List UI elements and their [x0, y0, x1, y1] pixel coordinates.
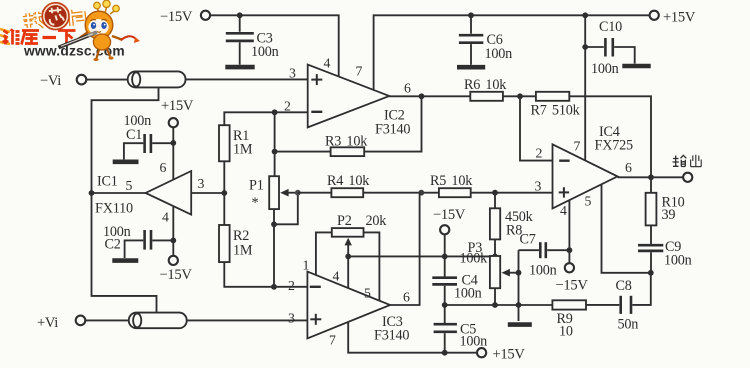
wire ground rail: [445, 304, 553, 306]
svg-text:3: 3: [535, 179, 542, 194]
svg-text:20k: 20k: [366, 213, 388, 229]
resistor R6 10k: [464, 77, 507, 101]
wire R7 to output node: [569, 96, 651, 177]
svg-text:−15V: −15V: [160, 267, 193, 283]
resistor R10 39: [646, 177, 685, 225]
svg-text:3: 3: [288, 311, 295, 326]
svg-text:100n: 100n: [529, 263, 557, 279]
wire +Vi to coax: [85, 319, 133, 321]
junction R6 R7 IC4pin2: [517, 93, 523, 99]
svg-text:R7 510k: R7 510k: [531, 103, 581, 119]
ground C10: [622, 64, 650, 69]
node output terminal: [683, 173, 692, 182]
capacitor C8 50n: [586, 278, 638, 333]
resistor R9 10: [552, 300, 586, 339]
svg-text:100n: 100n: [591, 61, 619, 77]
svg-text:50n: 50n: [618, 317, 639, 333]
junction IC3 output tap: [418, 190, 424, 196]
junction C5 bottom: [442, 350, 448, 356]
potentiometer P2 20k: [332, 213, 387, 288]
wire P1 bottom: [273, 209, 275, 287]
svg-text:R6 10k: R6 10k: [464, 77, 507, 93]
svg-text:6: 6: [160, 160, 167, 175]
junction C1 tap: [170, 140, 176, 146]
wire coax to IC2 pin3: [186, 78, 308, 80]
svg-text:FX725: FX725: [595, 138, 634, 154]
junction R3 feedback tap: [419, 93, 425, 99]
wire IC2 pin2 line: [224, 112, 307, 125]
logo text 找芯片 with magnifier: [22, 0, 85, 33]
junction C2 tap: [170, 238, 176, 244]
svg-text:100n: 100n: [485, 46, 513, 62]
op-amp U IC1 FX110: [95, 171, 191, 217]
node +15V top-right: [650, 10, 696, 26]
capacitor C6 100n: [459, 15, 512, 65]
svg-text:6: 6: [625, 160, 632, 175]
wire R3P1 column: [274, 112, 276, 176]
svg-text:+15V: +15V: [493, 347, 526, 363]
wire P2 right to IC3 pin5: [364, 232, 380, 301]
wire IC1 pin4 supply: [172, 206, 174, 256]
svg-text:100k: 100k: [460, 251, 489, 267]
ground C2: [112, 258, 138, 263]
coax cable -Vi shield: [128, 71, 186, 87]
junction C3 tap: [237, 12, 243, 18]
svg-text:IC1: IC1: [97, 174, 118, 190]
pin labels IC3: [288, 258, 410, 348]
junction output node: [648, 174, 654, 180]
wire R6 to R7: [503, 95, 536, 97]
wire -15V rail to IC2 pin4: [210, 15, 339, 77]
svg-text:6: 6: [404, 81, 411, 96]
resistor R4 10k: [327, 173, 370, 197]
wire coax to IC3 pin3: [187, 319, 308, 321]
node +15V IC1: [161, 98, 194, 127]
junction IC4 pin7 rail tap: [582, 12, 588, 18]
svg-text:10: 10: [559, 324, 573, 340]
wire IC1 pin5 output: [92, 192, 146, 194]
junction pin2 R3P1 tap: [272, 109, 278, 115]
capacitor C10 100n: [585, 19, 635, 77]
wire -Vi to coax: [86, 79, 133, 81]
svg-text:FX110: FX110: [95, 201, 133, 217]
capacitor C1 100n: [124, 113, 174, 159]
svg-text:+15V: +15V: [161, 98, 194, 114]
wire IC4 pin4 to -15V: [568, 200, 570, 263]
junction -15V line C4: [442, 254, 448, 260]
junction -15V line P3 top: [492, 254, 498, 260]
wire C8 right leg: [632, 273, 650, 305]
svg-text:P1: P1: [249, 178, 264, 194]
node +15V bottom terminal: [477, 347, 525, 363]
junction P1 bottom to pin2 wire: [271, 284, 277, 290]
svg-text:3: 3: [289, 66, 296, 81]
svg-text:C7: C7: [520, 232, 536, 248]
op-amp U IC2 F3140: [308, 65, 411, 138]
svg-text:C2: C2: [105, 237, 121, 253]
junction C7 right: [567, 247, 573, 253]
resistor R7 510k: [531, 92, 581, 119]
junction P3 bottom ground: [492, 302, 498, 308]
capacitor C7 100n: [519, 232, 570, 279]
svg-text:C8: C8: [616, 278, 632, 294]
resistor R8 450k: [490, 193, 534, 240]
svg-text:−15V: −15V: [556, 278, 589, 294]
svg-text:5: 5: [585, 194, 592, 209]
junction R3 left tap: [272, 149, 278, 155]
svg-text:4: 4: [324, 56, 331, 71]
junction P3 wiper: [516, 270, 522, 276]
wire R4 to R5: [363, 192, 439, 194]
junction pin5 C9 C8: [648, 270, 654, 276]
svg-text:5: 5: [364, 286, 371, 301]
svg-text:−Vi: −Vi: [40, 73, 61, 89]
node -15V mid terminal: [433, 207, 466, 234]
potentiometer P1: [249, 176, 298, 224]
op-amp U IC3 F3140: [307, 272, 409, 344]
junction IC1 pin5 guard: [89, 190, 95, 196]
resistor R3 10k: [275, 96, 422, 156]
svg-text:100n: 100n: [251, 44, 279, 60]
wire P3 bottom to ground: [494, 288, 496, 305]
potentiometer P3 100k: [460, 240, 519, 288]
op-amp U IC4 FX725: [553, 124, 634, 208]
junction C10 tap: [582, 44, 588, 50]
wire -15V terminal to C4: [444, 234, 446, 277]
svg-text:R5 10k: R5 10k: [430, 173, 473, 189]
capacitor C5 100n: [434, 305, 488, 353]
svg-text:3: 3: [198, 176, 205, 191]
wire R8 to P3: [494, 239, 496, 256]
wire -15V distribution line: [348, 255, 495, 257]
svg-text:P2: P2: [337, 213, 352, 229]
resistor R5 10k: [430, 173, 473, 197]
svg-text:4: 4: [333, 269, 340, 284]
wire R5 to IC4 pin3: [471, 192, 553, 194]
svg-text:4: 4: [560, 203, 567, 218]
logo text 维库一下: [3, 30, 76, 46]
junction R8 top: [492, 190, 498, 196]
svg-text:2: 2: [536, 146, 543, 161]
ground main symbol: [508, 305, 532, 325]
svg-text:−15V: −15V: [433, 207, 466, 223]
junction C6 tap: [468, 12, 474, 18]
svg-text:*: *: [252, 195, 259, 211]
ground C1: [113, 160, 139, 165]
wire R1 to R2: [223, 161, 225, 225]
wire R4 R5 signal line: [298, 192, 332, 194]
ground C6: [457, 65, 485, 70]
wire to IC4 pin2: [520, 96, 553, 160]
node -15V IC1: [160, 256, 193, 283]
junction P1 wiper node: [295, 190, 301, 196]
logo magnifier with 芯: [43, 3, 69, 29]
wire +15V top rail (IC2 pin7 to +15V): [374, 15, 650, 90]
wire IC1 pin6 supply: [172, 127, 174, 180]
svg-text:7: 7: [329, 333, 336, 348]
svg-text:F3140: F3140: [374, 328, 409, 344]
resistor R2 1M: [219, 225, 253, 262]
node -15V top-left rail: [160, 9, 210, 25]
node label 输出 output: [673, 155, 702, 167]
wire C7left P3wiper ground column: [518, 250, 520, 305]
svg-text:−15V: −15V: [160, 9, 193, 25]
svg-text:100n: 100n: [454, 286, 482, 302]
wire IC3 pin1 to P2 left: [316, 232, 332, 275]
svg-text:+Vi: +Vi: [37, 315, 58, 331]
wire IC4 output: [618, 176, 684, 178]
resistor R1 1M: [219, 125, 253, 161]
wire IC4 pin7 to rail: [584, 15, 586, 160]
svg-text:5: 5: [126, 178, 133, 193]
logo dzsc watermark: [0, 0, 140, 61]
svg-text:100n: 100n: [460, 334, 488, 350]
svg-text:R4 10k: R4 10k: [327, 173, 370, 189]
svg-text:7: 7: [574, 139, 581, 154]
wire IC1 pin3 to R1R2 node: [191, 192, 224, 194]
pin labels IC2: [284, 56, 411, 114]
wire IC3 output to R4R5 node: [390, 193, 420, 305]
capacitor C4 100n: [432, 273, 481, 306]
capacitor C9 100n: [638, 225, 692, 272]
junction R1 R2 IC1pin3: [221, 190, 227, 196]
svg-text:+15V: +15V: [663, 10, 696, 26]
svg-text:2: 2: [284, 99, 291, 114]
svg-text:2: 2: [288, 278, 295, 293]
svg-text:C1: C1: [126, 127, 142, 143]
pin labels IC4: [535, 139, 633, 219]
logo speed dashes: [0, 29, 10, 44]
logo pen: [59, 32, 98, 47]
svg-text:C10: C10: [599, 19, 622, 35]
capacitor C3 100n: [226, 15, 279, 64]
wire IC3 pin7 supply: [348, 322, 477, 353]
svg-text:R3 10k: R3 10k: [325, 134, 368, 150]
svg-text:4: 4: [162, 210, 169, 225]
junction C4 C5 ground: [442, 302, 448, 308]
wire IC4 pin5 compensation: [602, 185, 651, 273]
svg-text:1: 1: [303, 258, 310, 273]
svg-text:6: 6: [403, 290, 410, 305]
wire IC2 output: [389, 95, 470, 97]
wire guard shield line: [92, 87, 159, 313]
wire R2 to IC3 pin2: [224, 262, 307, 287]
coax cable +Vi shield: [129, 313, 187, 329]
svg-text:1M: 1M: [233, 243, 253, 259]
node -Vi input terminal: [40, 73, 86, 89]
capacitor C2 100n: [103, 224, 173, 258]
node +Vi input terminal: [37, 315, 85, 331]
svg-text:1M: 1M: [233, 142, 253, 158]
logo mascot: [77, 0, 140, 61]
svg-text:7: 7: [356, 64, 363, 79]
svg-text:100n: 100n: [664, 253, 692, 269]
junction ground stub: [516, 302, 522, 308]
svg-text:39: 39: [662, 207, 676, 223]
junction P1 wiper return: [271, 221, 277, 227]
svg-text:F3140: F3140: [375, 122, 410, 138]
ground C3: [225, 65, 254, 70]
junction IC3 pin4 -15V: [345, 254, 351, 260]
node -15V IC4 terminal: [556, 263, 589, 293]
